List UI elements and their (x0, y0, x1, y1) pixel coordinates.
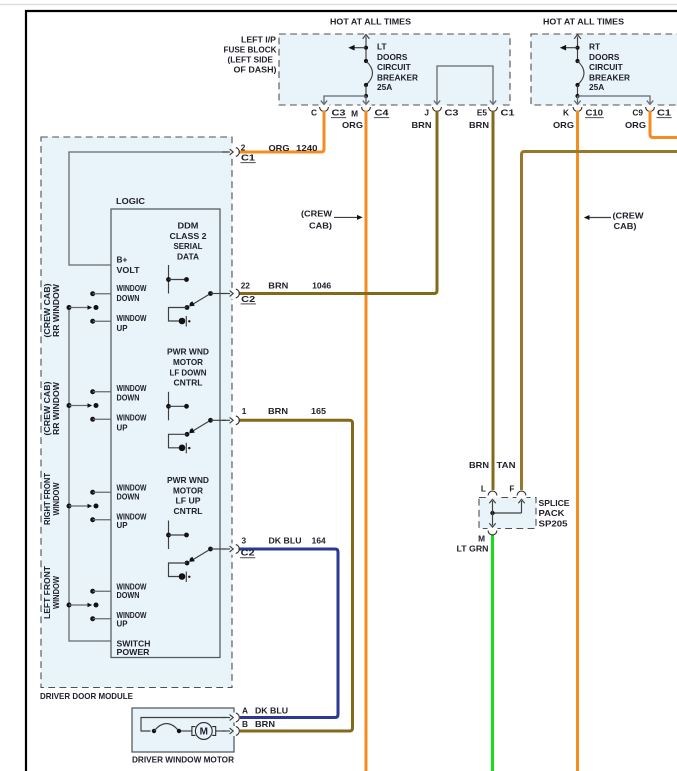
svg-text:C9: C9 (632, 108, 643, 118)
label PWR WND MOTOR LF UP CNTRL (167, 475, 209, 516)
svg-text:WINDOW: WINDOW (52, 482, 61, 515)
svg-text:OF DASH): OF DASH) (234, 65, 277, 75)
pin gaps on left fuse box edge (319, 104, 499, 107)
svg-text:SPLICE: SPLICE (539, 498, 570, 508)
pin gaps on right fuse box edge (572, 104, 656, 107)
svg-text:BRN: BRN (255, 719, 275, 729)
wire BRN 165 pin1 to motor B (239, 420, 353, 731)
svg-text:DOORS: DOORS (589, 52, 620, 62)
svg-text:RIGHT FRONT: RIGHT FRONT (43, 473, 52, 525)
svg-text:C2: C2 (241, 548, 256, 558)
label B+ VOLT (117, 255, 140, 275)
motor internal wiring (141, 718, 226, 734)
pin M / C4 (351, 107, 389, 119)
svg-text:CNTRL: CNTRL (174, 506, 203, 516)
svg-text:VOLT: VOLT (117, 265, 140, 275)
svg-text:ORG: ORG (269, 143, 290, 153)
pin L of SP205 (481, 483, 497, 495)
svg-text:WINDOW: WINDOW (117, 413, 147, 423)
pin 2 / C1 of DDM (222, 142, 256, 162)
svg-text:BREAKER: BREAKER (589, 72, 630, 82)
svg-text:165: 165 (311, 406, 326, 416)
svg-text:B+: B+ (117, 255, 128, 265)
wire TAN right edge to splice F (522, 152, 677, 491)
svg-text:DRIVER DOOR MODULE: DRIVER DOOR MODULE (40, 691, 133, 701)
pin gaps on splice edges (488, 497, 527, 529)
svg-text:K: K (563, 108, 569, 118)
svg-text:LEFT I/P: LEFT I/P (241, 35, 276, 45)
svg-text:C3: C3 (332, 108, 347, 118)
label LEFT FRONT WINDOW (S4) (43, 566, 61, 619)
svg-text:(LEFT SIDE: (LEFT SIDE (228, 55, 274, 65)
svg-text:POWER: POWER (117, 647, 150, 657)
svg-text:RR WINDOW: RR WINDOW (52, 382, 61, 435)
wire LT GRN splice M down page (491, 535, 494, 771)
svg-text:LF UP: LF UP (176, 496, 201, 506)
label WINDOW DOWN / WINDOW UP (S4) (117, 582, 147, 629)
label ORG 1240 (269, 143, 318, 153)
svg-text:LT GRN: LT GRN (457, 544, 489, 554)
svg-text:CIRCUIT: CIRCUIT (377, 62, 411, 72)
fuse block LEFT I/P box (279, 34, 510, 105)
wire breaker to pin C9 (578, 96, 654, 104)
label (CREW CAB) left with arrow (301, 209, 363, 231)
svg-text:J: J (424, 108, 429, 118)
wire ORG 1240 pin2 to C3-C (239, 111, 325, 153)
svg-text:DOWN: DOWN (117, 393, 140, 403)
splice pack SP205 box (479, 498, 536, 529)
label (CREW CAB) RR WINDOW (S1) (43, 283, 61, 337)
svg-text:BREAKER: BREAKER (377, 72, 418, 82)
svg-text:WINDOW: WINDOW (52, 576, 61, 609)
module DDM box (41, 137, 232, 688)
switch S3 (right front window) (67, 490, 112, 523)
pin C9 / C1 (632, 107, 671, 118)
label DDM CLASS 2 SERIAL DATA (170, 221, 207, 262)
svg-text:A: A (242, 705, 248, 715)
svg-text:LT: LT (377, 42, 387, 52)
label BRN 1046 (268, 281, 331, 291)
switch S4 (left front window) (67, 589, 112, 622)
svg-text:HOT AT ALL TIMES: HOT AT ALL TIMES (330, 17, 411, 27)
svg-text:L: L (481, 483, 486, 493)
svg-text:DK BLU: DK BLU (269, 536, 302, 546)
svg-text:C1: C1 (501, 108, 516, 118)
wire DK BLU 164 pin3 to motor A (239, 549, 339, 718)
pin gaps on DDM edge (231, 146, 234, 554)
svg-text:RT: RT (589, 42, 600, 52)
svg-text:CAB): CAB) (309, 221, 332, 231)
wire breaker to pin C (321, 96, 366, 104)
pin M of SP205 (478, 531, 497, 544)
svg-text:C1: C1 (241, 153, 256, 163)
motor box (132, 708, 234, 752)
svg-text:DOWN: DOWN (117, 492, 140, 502)
svg-text:F: F (509, 483, 514, 493)
pin B of motor (222, 719, 248, 736)
pin E5 / C1 (477, 107, 515, 118)
svg-text:164: 164 (312, 536, 326, 546)
svg-text:DRIVER WINDOW MOTOR: DRIVER WINDOW MOTOR (132, 754, 234, 764)
label (CREW CAB) RR WINDOW (S2) (43, 381, 61, 435)
svg-text:CIRCUIT: CIRCUIT (589, 62, 623, 72)
svg-text:DATA: DATA (177, 251, 199, 261)
pin gaps on motor edge (233, 713, 236, 737)
driver U-B LF down output (166, 392, 226, 454)
pin J / C3 (424, 107, 459, 118)
svg-text:MOTOR: MOTOR (173, 485, 203, 495)
svg-text:DOWN: DOWN (117, 590, 140, 600)
svg-text:WINDOW: WINDOW (117, 383, 147, 393)
driver U-A serial data output (166, 265, 226, 327)
svg-text:UP: UP (117, 323, 128, 333)
svg-text:WINDOW: WINDOW (117, 313, 147, 323)
wire BRN 1046 pin22 to C3-J (239, 111, 438, 294)
svg-text:SP205: SP205 (539, 518, 568, 528)
label PWR WND MOTOR LF DOWN CNTRL (167, 347, 209, 388)
label SPLICE PACK SP205 (539, 498, 570, 529)
svg-text:C2: C2 (241, 294, 256, 304)
svg-text:M: M (351, 109, 358, 119)
driver U-C LF up output (166, 521, 226, 583)
pin A of motor (222, 705, 248, 722)
pin 22 / C2 of DDM (222, 281, 256, 304)
circuit breaker LT DOORS 25A (348, 35, 418, 99)
logic box (111, 209, 220, 658)
splice internal wires (489, 499, 524, 527)
circuit breaker RT DOORS 25A (560, 35, 630, 99)
svg-text:25A: 25A (377, 82, 392, 92)
svg-text:PACK: PACK (539, 508, 565, 518)
svg-text:LF DOWN: LF DOWN (170, 367, 207, 377)
wire switch power bus (69, 308, 111, 642)
svg-text:M: M (478, 534, 485, 544)
svg-text:SERIAL: SERIAL (174, 241, 203, 251)
wire pin2 to B+ VOLT (69, 152, 228, 265)
svg-text:UP: UP (117, 619, 128, 629)
svg-text:22: 22 (241, 281, 251, 291)
pin K / C10 (563, 107, 604, 118)
svg-text:DOORS: DOORS (377, 52, 408, 62)
svg-text:UP: UP (117, 423, 128, 433)
svg-text:1240: 1240 (296, 143, 318, 153)
svg-text:25A: 25A (589, 82, 604, 92)
switch S1 (crew cab rr window) (67, 291, 112, 324)
svg-text:CNTRL: CNTRL (174, 378, 203, 388)
svg-text:PWR WND: PWR WND (167, 475, 209, 485)
svg-text:C10: C10 (586, 108, 604, 118)
svg-text:ORG: ORG (625, 120, 646, 130)
wire breaker to pin K (574, 96, 580, 104)
wire bridge J to E5 (434, 66, 496, 104)
svg-text:BRN: BRN (268, 406, 288, 416)
svg-text:(CREW: (CREW (613, 211, 644, 221)
label WINDOW DOWN / WINDOW UP (S2) (117, 383, 147, 433)
wire ORG from C4-M down page (365, 111, 368, 771)
svg-text:LOGIC: LOGIC (116, 196, 145, 206)
svg-text:WINDOW: WINDOW (117, 283, 147, 293)
svg-text:HOT AT ALL TIMES: HOT AT ALL TIMES (543, 17, 624, 27)
pin F of SP205 (509, 483, 525, 495)
svg-text:(CREW CAB): (CREW CAB) (43, 381, 52, 435)
svg-text:PWR WND: PWR WND (167, 347, 209, 357)
label DK BLU 164 (269, 536, 327, 546)
svg-text:DOWN: DOWN (117, 293, 140, 303)
motor M1 symbol (192, 723, 216, 740)
svg-text:UP: UP (117, 520, 128, 530)
pin 3 / C2 of DDM (222, 536, 255, 558)
pin 1 of DDM (222, 406, 247, 425)
svg-text:(CREW CAB): (CREW CAB) (43, 283, 52, 337)
svg-text:FUSE BLOCK: FUSE BLOCK (224, 45, 277, 55)
wire BRN from C1-E5 to splice L (492, 111, 495, 491)
wire ORG from C1-C9 to right edge (650, 111, 677, 138)
svg-text:LEFT FRONT: LEFT FRONT (43, 566, 52, 619)
switch S2 (crew cab rr window) (67, 389, 112, 422)
label WINDOW DOWN / WINDOW UP (S1) (117, 283, 147, 333)
svg-text:1046: 1046 (312, 281, 331, 291)
svg-text:3: 3 (242, 536, 247, 546)
svg-text:TAN: TAN (497, 460, 516, 470)
top page rule (0, 4, 677, 6)
label WINDOW DOWN / WINDOW UP (S3) (117, 483, 147, 531)
svg-text:C: C (311, 108, 317, 118)
label LEFT I/P FUSE BLOCK (LEFT SIDE OF DASH) (224, 35, 277, 75)
svg-text:BRN: BRN (412, 120, 432, 130)
svg-text:B: B (242, 719, 248, 729)
svg-text:1: 1 (242, 406, 247, 416)
svg-text:CLASS 2: CLASS 2 (170, 231, 207, 241)
svg-text:(CREW: (CREW (301, 209, 332, 219)
label RIGHT FRONT WINDOW (S3) (43, 473, 61, 525)
fuse block RIGHT box (531, 34, 677, 105)
svg-text:M: M (200, 727, 208, 738)
svg-text:CAB): CAB) (614, 221, 637, 231)
svg-text:RR WINDOW: RR WINDOW (52, 284, 61, 337)
label (CREW CAB) right with arrow (584, 211, 644, 232)
svg-text:ORG: ORG (342, 120, 363, 130)
svg-text:MOTOR: MOTOR (173, 357, 203, 367)
wire ORG from C10-K down page (576, 111, 579, 771)
svg-text:DK BLU: DK BLU (255, 705, 288, 715)
svg-text:C4: C4 (375, 108, 390, 118)
svg-text:C3: C3 (445, 108, 460, 118)
label BRN 165 (268, 406, 326, 416)
label SWITCH POWER (117, 639, 151, 657)
svg-text:BRN: BRN (469, 120, 489, 130)
wire breaker to pin M (363, 96, 369, 104)
svg-text:2: 2 (241, 142, 246, 152)
svg-text:E5: E5 (477, 108, 488, 118)
svg-text:BRN: BRN (469, 460, 489, 470)
svg-text:C1: C1 (657, 108, 672, 118)
svg-text:BRN: BRN (268, 281, 288, 291)
svg-text:DDM: DDM (178, 221, 199, 231)
svg-text:ORG: ORG (553, 120, 574, 130)
pin C / C3 (311, 107, 346, 118)
